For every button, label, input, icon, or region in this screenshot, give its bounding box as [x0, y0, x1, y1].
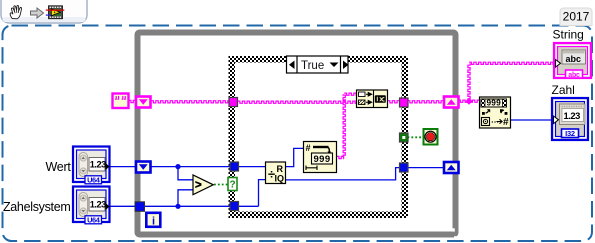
iteration terminal i: [146, 213, 160, 228]
svg-text:#: #: [503, 117, 509, 128]
svg-text:>: >: [195, 180, 202, 192]
case structure border: [229, 56, 409, 218]
tunnel quotient case right: [400, 163, 409, 172]
tunnel x case left: [230, 162, 239, 171]
wire R output to number-to-string: [286, 148, 304, 166]
control Zahelsystem: [73, 187, 110, 225]
wire IQ output to right tunnel and shift register: [286, 168, 444, 180]
svg-text:R: R: [277, 164, 284, 174]
svg-text:String: String: [553, 28, 584, 42]
loop condition stop terminal: [424, 129, 438, 145]
wire string to concat lower input: [238, 101, 357, 103]
year tab 2017: [560, 8, 592, 26]
tunnel string case right: [400, 98, 409, 107]
wire concat out to right tunnel: [388, 101, 401, 103]
shift register left numeric (blue): [136, 162, 151, 173]
svg-text:2017: 2017: [563, 10, 590, 24]
wire shift register out to junction and string-to-number: [458, 100, 480, 102]
wire string-to-number out to Zahl: [511, 119, 552, 121]
wire digit string to concat upper input: [337, 156, 345, 158]
wire riser to RIQ y input: [259, 180, 266, 207]
wire string constant to shift register: [129, 100, 137, 102]
svg-text:i: i: [152, 215, 155, 227]
while loop border: [138, 33, 456, 235]
svg-text:I32: I32: [565, 129, 575, 138]
svg-text:#: #: [306, 143, 311, 153]
toolbar arrow icon: [31, 8, 44, 18]
while loop corner step: [452, 228, 454, 231]
svg-text:999: 999: [313, 154, 330, 165]
indicator Zahl: [552, 98, 588, 140]
shift register right string (pink): [444, 97, 459, 108]
decimal string to number node: [480, 97, 511, 128]
quotient remainder node R IQ: [266, 162, 286, 184]
wire boolean tunnel to stop terminal: [408, 136, 424, 138]
svg-text:IQ: IQ: [275, 174, 285, 184]
svg-text:Zahelsystem: Zahelsystem: [3, 200, 71, 214]
wire Zahelsystem run into case: [108, 205, 259, 207]
wire x input run into case to RIQ: [151, 166, 265, 168]
svg-text:U64: U64: [87, 216, 101, 225]
svg-text:abc: abc: [568, 72, 580, 79]
wire branch to greater node top input: [178, 167, 193, 180]
toolbar VI film icon: [46, 6, 65, 19]
svg-text:999: 999: [486, 98, 501, 108]
wire tunnel to right shift register: [408, 101, 444, 103]
junction diamond on string wire: [466, 98, 473, 105]
toolbar box: [1, 0, 87, 23]
comparison node greater: [193, 175, 213, 195]
svg-text:Wert: Wert: [46, 160, 72, 174]
wire boolean to case selector: [214, 184, 228, 186]
svg-text:abc: abc: [566, 54, 582, 64]
shift register left string (pink): [136, 97, 151, 108]
number to decimal string node: [304, 142, 337, 173]
wire Wert to shift register: [108, 166, 135, 168]
concatenate strings node: [357, 90, 388, 108]
svg-text:1.23: 1.23: [90, 160, 106, 170]
indicator String: [554, 43, 591, 79]
svg-text:U64: U64: [87, 176, 101, 185]
svg-text:1.23: 1.23: [564, 110, 581, 121]
shift register right numeric (blue): [444, 162, 459, 173]
case selector label True: [287, 56, 349, 73]
empty string constant: [113, 94, 129, 109]
junction node dot upper: [175, 164, 180, 169]
tunnel y case left: [230, 202, 239, 211]
toolbar hand tool icon: [10, 5, 21, 18]
wire string into case tunnel: [151, 101, 230, 103]
svg-text:1.23: 1.23: [90, 200, 106, 210]
junction node dot lower: [175, 204, 180, 209]
wire branch to greater node bottom input: [178, 190, 193, 207]
wire riser to String indicator: [468, 63, 470, 101]
svg-text:?: ?: [229, 180, 235, 191]
tunnel boolean case right: [400, 133, 409, 142]
svg-text:Zahl: Zahl: [552, 83, 575, 97]
case selector terminal ?: [228, 178, 237, 191]
svg-text:True: True: [301, 60, 324, 72]
control Wert: [73, 147, 110, 185]
tunnel Zahelsystem on loop border: [135, 202, 145, 212]
tunnel string case left: [229, 98, 238, 107]
